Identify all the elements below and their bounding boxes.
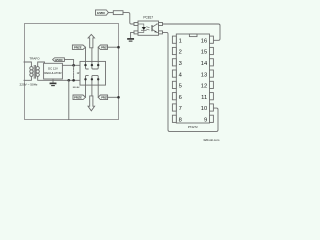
net flag 12VDC above regulator [53, 58, 65, 62]
svg-text:PT2272: PT2272 [188, 125, 198, 129]
svg-text:15: 15 [201, 50, 207, 56]
opto LED [138, 24, 144, 32]
relay contact 2 bottom [92, 75, 95, 85]
svg-text:12VDC: 12VDC [55, 58, 63, 62]
transformer secondary winding [36, 67, 39, 77]
enclosure box left module outline [25, 24, 119, 120]
svg-text:REGULATOR: REGULATOR [44, 71, 61, 75]
svg-text:PRIZE: PRIZE [74, 45, 82, 49]
net flag top-left SPK [72, 45, 85, 49]
transformer secondary top lead [38, 62, 45, 67]
IC pin numbers right [201, 38, 208, 123]
IC notch [189, 34, 197, 37]
opto pin1 stub [134, 23, 138, 26]
wire relay bottom-right to flag [97, 85, 99, 97]
svg-text:DC 12V: DC 12V [48, 66, 58, 70]
junction node 12V [72, 64, 75, 67]
wire opto collector to IC pin16 [163, 24, 221, 40]
transformer TRAFO primary winding [30, 67, 33, 77]
resistor R1 [113, 11, 123, 15]
IC U3 body [176, 34, 209, 123]
svg-text:PRIZ: PRIZ [101, 46, 107, 49]
opto pin4 stub [159, 23, 163, 26]
net flag bottom-right [98, 95, 107, 100]
IC pin stubs right [210, 36, 214, 122]
wire opto emitter to IC pin10 [163, 32, 219, 131]
relay contact 2 top [92, 61, 95, 69]
IC pin stubs left [172, 36, 176, 122]
junction node right edge top [117, 46, 120, 49]
wire opto cathode to ground [131, 32, 134, 38]
wire bottom-right flag to edge [108, 96, 119, 98]
junction node gnd rail A [67, 79, 70, 82]
wire top-right flag to edge [108, 46, 119, 48]
ground regulator [52, 79, 54, 83]
wire regulator output to relay coil [62, 64, 80, 66]
svg-text:PC817: PC817 [143, 15, 153, 19]
transformer primary bottom lead [24, 76, 31, 80]
up arrow to mains [91, 48, 93, 61]
wire flag to 12V rail [64, 60, 73, 66]
svg-text:1: 1 [179, 38, 182, 44]
svg-text:5: 5 [179, 84, 182, 90]
relay contact 1 bottom [86, 75, 89, 85]
svg-text:8: 8 [179, 118, 182, 124]
svg-text:12: 12 [201, 84, 207, 90]
junction node right edge bottom [117, 96, 120, 99]
transformer primary top lead [24, 62, 31, 67]
svg-text:3: 3 [179, 61, 182, 67]
svg-text:320volt.com: 320volt.com [203, 138, 220, 142]
net flag top-right [98, 45, 107, 49]
wire relay bottom-left to flag [85, 85, 87, 97]
wire gnd rail to bottom edge [68, 80, 70, 119]
transformer core [34, 66, 35, 79]
relay RL1 box [80, 61, 106, 85]
svg-text:11: 11 [201, 95, 207, 101]
wire relay top-right to flag [97, 47, 99, 61]
svg-text:7: 7 [179, 106, 182, 112]
net flag bottom-left [73, 95, 86, 100]
wire relay top-left to flag [85, 47, 87, 61]
down arrow to load [91, 85, 93, 96]
svg-text:10: 10 [201, 106, 207, 112]
svg-text:14: 14 [201, 61, 208, 67]
svg-text:6: 6 [179, 95, 182, 101]
opto pin2 stub [134, 31, 138, 34]
svg-text:220V ~ 50Hz: 220V ~ 50Hz [20, 83, 38, 87]
svg-text:RELAY: RELAY [73, 86, 81, 89]
wire ground rail to relay coil- [53, 79, 80, 81]
svg-text:13: 13 [201, 72, 207, 78]
ground opto [128, 38, 133, 40]
opto pin3 stub [159, 31, 163, 34]
regulator U2 box [44, 63, 63, 79]
svg-text:PRIZE: PRIZE [74, 95, 82, 99]
relay contact 1 top [86, 61, 89, 69]
relay contact 3 bottom [96, 75, 99, 85]
net flag 12VDC top feed [96, 10, 109, 15]
wire resistor to opto anode [123, 13, 134, 24]
transformer secondary bottom lead [38, 76, 53, 80]
junction node gnd rail B [72, 79, 75, 82]
wire flag to resistor [108, 12, 113, 14]
svg-text:16: 16 [201, 38, 207, 44]
relay coil element [73, 65, 75, 80]
opto photon arrows [147, 27, 150, 30]
svg-text:TRAFO: TRAFO [29, 56, 40, 60]
svg-text:2: 2 [179, 50, 182, 56]
IC pin numbers left [179, 38, 183, 123]
relay contact 3 top [96, 61, 99, 69]
svg-text:12VDC: 12VDC [97, 11, 105, 15]
svg-text:9: 9 [204, 118, 207, 124]
opto transistor [151, 26, 153, 31]
svg-text:PRIZ: PRIZ [101, 96, 107, 99]
